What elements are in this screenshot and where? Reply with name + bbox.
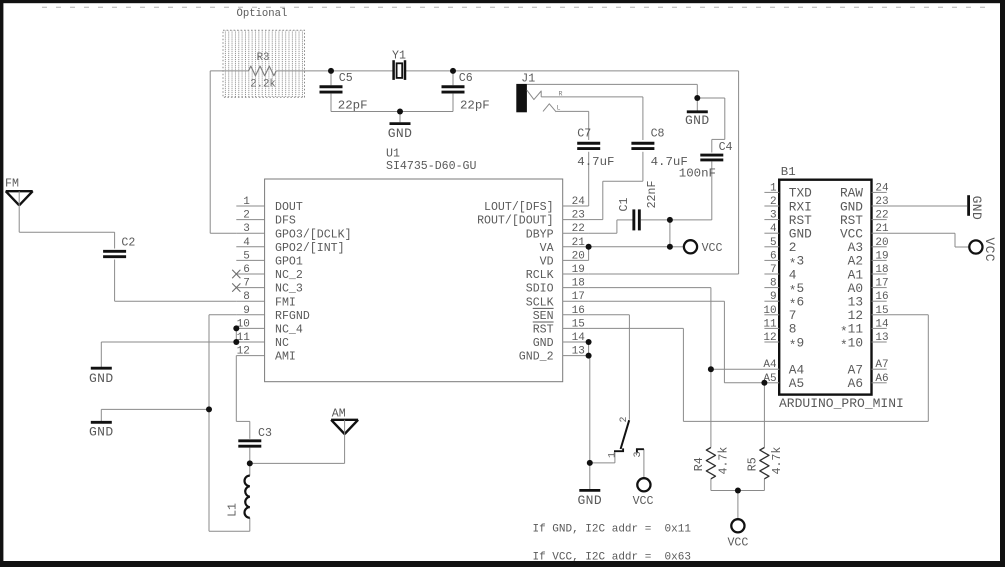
- svg-text:8: 8: [243, 291, 250, 303]
- svg-text:C3: C3: [258, 427, 272, 440]
- svg-text:4: 4: [243, 237, 250, 249]
- svg-text:8: 8: [770, 278, 777, 290]
- svg-text:VD: VD: [540, 256, 554, 269]
- svg-text:22pF: 22pF: [338, 99, 368, 113]
- svg-text:GND: GND: [577, 493, 602, 508]
- svg-text:6: 6: [243, 264, 250, 276]
- svg-text:23: 23: [572, 210, 585, 222]
- svg-text:C8: C8: [651, 127, 665, 140]
- svg-text:GPO2/[INT]: GPO2/[INT]: [275, 242, 345, 255]
- svg-text:5: 5: [243, 250, 250, 262]
- svg-text:21: 21: [572, 237, 586, 249]
- svg-text:20: 20: [875, 237, 888, 249]
- svg-text:NC: NC: [275, 337, 289, 350]
- svg-text:4.7k: 4.7k: [771, 447, 784, 475]
- svg-text:19: 19: [875, 250, 888, 262]
- svg-text:A6: A6: [848, 376, 863, 391]
- svg-text:24: 24: [572, 196, 586, 208]
- svg-text:R3: R3: [257, 52, 270, 64]
- svg-text:ARDUINO_PRO_MINI: ARDUINO_PRO_MINI: [779, 396, 904, 411]
- svg-text:GND: GND: [533, 337, 554, 350]
- svg-text:RCLK: RCLK: [526, 269, 554, 282]
- svg-text:GND: GND: [685, 113, 710, 128]
- svg-text:12: 12: [237, 346, 250, 358]
- svg-text:15: 15: [572, 318, 585, 330]
- svg-text:18: 18: [572, 278, 585, 290]
- svg-text:2.2k: 2.2k: [250, 79, 275, 91]
- svg-text:R: R: [559, 90, 563, 97]
- svg-text:A6: A6: [875, 373, 888, 385]
- svg-text:3: 3: [633, 451, 644, 457]
- svg-text:9: 9: [770, 291, 777, 303]
- svg-text:5: 5: [770, 237, 777, 249]
- svg-text:22: 22: [875, 210, 888, 222]
- svg-text:DOUT: DOUT: [275, 201, 303, 214]
- svg-text:NC_2: NC_2: [275, 269, 303, 282]
- svg-text:If GND, I2C addr = 0x11: If GND, I2C addr = 0x11: [533, 523, 692, 535]
- svg-text:19: 19: [572, 264, 585, 276]
- svg-text:NC_4: NC_4: [275, 324, 303, 337]
- svg-text:3: 3: [243, 223, 250, 235]
- svg-text:4.7k: 4.7k: [718, 447, 731, 475]
- svg-text:17: 17: [875, 278, 888, 290]
- svg-text:L: L: [557, 105, 561, 112]
- svg-text:3: 3: [796, 254, 804, 269]
- svg-text:15: 15: [875, 305, 888, 317]
- svg-text:16: 16: [572, 305, 585, 317]
- svg-text:10: 10: [763, 305, 776, 317]
- svg-text:1: 1: [607, 452, 618, 458]
- svg-text:1: 1: [770, 182, 777, 194]
- svg-text:AMI: AMI: [275, 351, 296, 364]
- svg-text:14: 14: [572, 332, 586, 344]
- svg-text:VCC: VCC: [727, 537, 748, 550]
- svg-text:AM: AM: [332, 408, 346, 421]
- svg-text:*: *: [840, 338, 848, 353]
- svg-text:B1: B1: [781, 165, 796, 179]
- svg-text:21: 21: [875, 223, 889, 235]
- svg-text:6: 6: [796, 295, 804, 310]
- svg-text:ROUT/[DOUT]: ROUT/[DOUT]: [477, 215, 554, 228]
- svg-text:16: 16: [875, 291, 888, 303]
- svg-text:VCC: VCC: [702, 242, 723, 255]
- svg-text:GPO3/[DCLK]: GPO3/[DCLK]: [275, 228, 352, 241]
- svg-text:9: 9: [796, 335, 804, 350]
- svg-text:R4: R4: [693, 457, 706, 471]
- svg-text:SI4735-D60-GU: SI4735-D60-GU: [386, 160, 476, 173]
- svg-text:7: 7: [770, 264, 777, 276]
- svg-text:4.7uF: 4.7uF: [577, 155, 614, 169]
- svg-text:*: *: [789, 338, 797, 353]
- svg-text:R5: R5: [746, 457, 759, 471]
- svg-text:20: 20: [572, 250, 585, 262]
- svg-text:SEN: SEN: [533, 310, 554, 323]
- svg-text:C4: C4: [719, 141, 733, 154]
- svg-text:14: 14: [875, 318, 889, 330]
- svg-text:12: 12: [763, 332, 776, 344]
- svg-text:L1: L1: [227, 503, 240, 517]
- svg-text:100nF: 100nF: [679, 166, 716, 180]
- svg-text:GND_2: GND_2: [519, 351, 554, 364]
- svg-text:11: 11: [763, 318, 777, 330]
- svg-text:C2: C2: [121, 237, 135, 250]
- svg-text:GND: GND: [89, 371, 114, 386]
- svg-text:A5: A5: [789, 376, 804, 391]
- svg-text:DFS: DFS: [275, 215, 296, 228]
- svg-text:GND: GND: [89, 425, 114, 440]
- svg-text:FMI: FMI: [275, 296, 296, 309]
- svg-text:RFGND: RFGND: [275, 310, 310, 323]
- svg-text:10: 10: [848, 335, 863, 350]
- svg-text:24: 24: [875, 182, 889, 194]
- svg-text:22: 22: [572, 223, 585, 235]
- svg-text:17: 17: [572, 291, 585, 303]
- svg-text:DBYP: DBYP: [526, 228, 554, 241]
- svg-text:VCC: VCC: [633, 495, 654, 508]
- svg-text:LOUT/[DFS]: LOUT/[DFS]: [484, 201, 554, 214]
- svg-text:2: 2: [619, 416, 630, 422]
- svg-text:C7: C7: [577, 127, 591, 140]
- svg-text:C6: C6: [459, 72, 473, 85]
- svg-text:C1: C1: [618, 198, 631, 212]
- svg-text:2: 2: [789, 240, 797, 255]
- svg-text:GND: GND: [388, 126, 413, 141]
- svg-text:2: 2: [770, 196, 777, 208]
- svg-text:VA: VA: [540, 242, 554, 255]
- svg-text:A4: A4: [763, 359, 777, 371]
- svg-text:SDIO: SDIO: [526, 283, 554, 296]
- svg-text:RST: RST: [533, 324, 554, 337]
- svg-text:13: 13: [875, 332, 888, 344]
- svg-text:VCC: VCC: [982, 237, 997, 262]
- svg-text:9: 9: [243, 305, 250, 317]
- svg-text:18: 18: [875, 264, 888, 276]
- svg-text:GPO1: GPO1: [275, 256, 303, 269]
- svg-text:C5: C5: [339, 72, 353, 85]
- svg-text:FM: FM: [5, 178, 19, 191]
- svg-text:U1: U1: [386, 148, 400, 161]
- svg-text:J1: J1: [521, 73, 535, 86]
- svg-text:4: 4: [770, 223, 777, 235]
- svg-text:7: 7: [243, 278, 250, 290]
- svg-text:22nF: 22nF: [646, 181, 659, 209]
- svg-text:13: 13: [572, 346, 585, 358]
- svg-text:1: 1: [243, 196, 250, 208]
- svg-text:NC_3: NC_3: [275, 283, 303, 296]
- svg-text:GND: GND: [969, 196, 984, 221]
- svg-text:22pF: 22pF: [460, 99, 490, 113]
- svg-text:23: 23: [875, 196, 888, 208]
- svg-text:SCLK: SCLK: [526, 296, 554, 309]
- svg-text:Y1: Y1: [392, 49, 406, 62]
- svg-text:6: 6: [770, 250, 777, 262]
- svg-text:2: 2: [243, 210, 250, 222]
- svg-text:3: 3: [770, 210, 777, 222]
- svg-text:Optional: Optional: [237, 8, 288, 20]
- svg-text:A7: A7: [875, 359, 888, 371]
- svg-text:8: 8: [789, 322, 797, 337]
